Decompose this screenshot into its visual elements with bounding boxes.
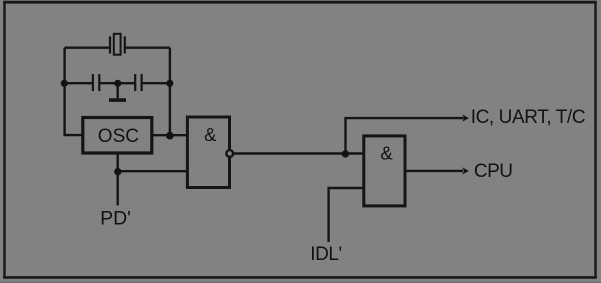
svg-text:&: &: [204, 124, 217, 145]
svg-text:PD': PD': [100, 208, 131, 230]
svg-text:OSC: OSC: [98, 126, 139, 147]
svg-text:&: &: [380, 143, 393, 164]
svg-text:IDL': IDL': [310, 244, 342, 265]
svg-text:CPU: CPU: [474, 161, 513, 182]
svg-text:IC, UART, T/C: IC, UART, T/C: [471, 107, 585, 128]
